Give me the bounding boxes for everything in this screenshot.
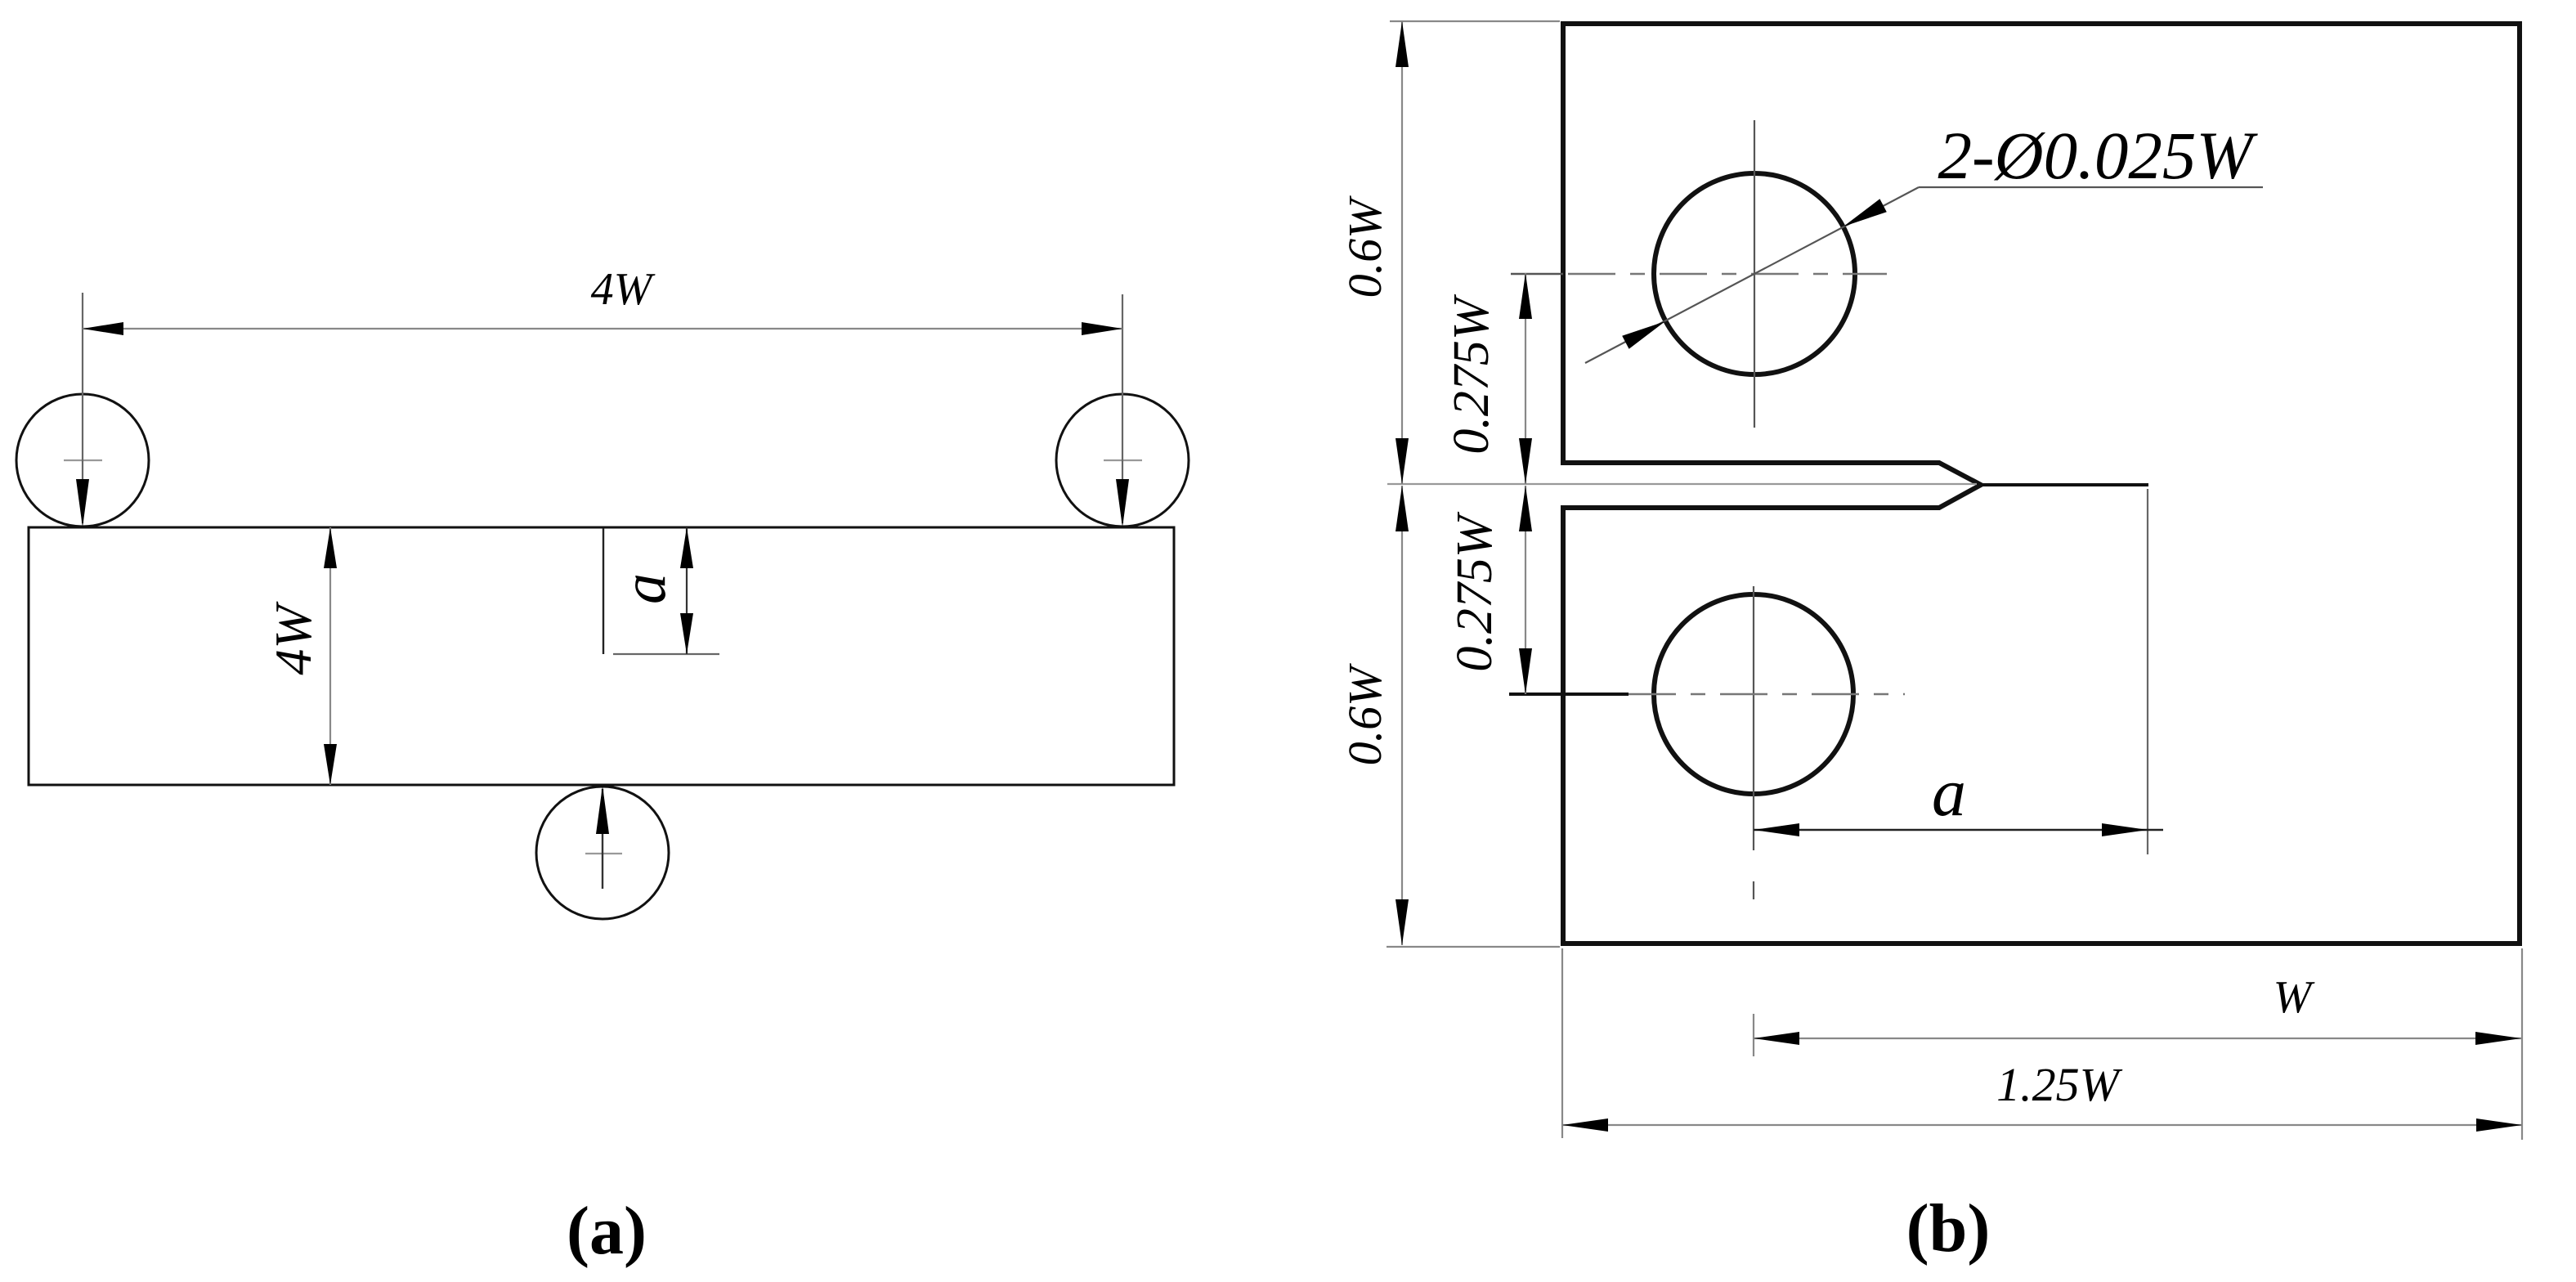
svg-text:W: W <box>2274 972 2315 1023</box>
svg-text:4W: 4W <box>264 601 322 675</box>
upper hole <box>1654 173 1855 374</box>
roller right <box>1056 394 1189 527</box>
svg-text:(a): (a) <box>567 1193 647 1269</box>
roller left <box>16 394 149 527</box>
dimension W <box>1754 972 2521 1056</box>
dimension 1.25W <box>1562 948 2522 1140</box>
dimension 0.6W upper <box>1338 21 1560 484</box>
dimension 0.6W lower <box>1338 486 1560 947</box>
lower hole vertical centre line <box>1753 586 1754 850</box>
svg-text:a: a <box>610 573 679 604</box>
specimen outline with notch <box>1563 24 2520 944</box>
upper hole vertical centre line <box>1754 120 1755 428</box>
dimension 0.275W lower <box>1447 486 1532 694</box>
svg-text:a: a <box>1932 755 1966 831</box>
hole diameter leader 2-Ø0.025W <box>1585 118 2263 363</box>
roller bottom load line <box>596 786 609 889</box>
svg-text:4W: 4W <box>591 264 656 315</box>
svg-text:0.275W: 0.275W <box>1447 511 1503 672</box>
dimension 4W span <box>83 264 1122 335</box>
dimension a (crack depth) <box>610 527 693 654</box>
roller bottom <box>536 787 669 919</box>
svg-text:2-Ø0.025W: 2-Ø0.025W <box>1938 118 2259 193</box>
roller left load line <box>76 293 89 527</box>
dimension 0.275W upper <box>1444 273 1532 484</box>
crack line (a) <box>603 528 604 654</box>
dimension 4W depth <box>264 527 337 785</box>
crack depth extension line <box>613 653 719 655</box>
lower hole horizontal centre line <box>1509 693 1905 696</box>
crack line (b) <box>1981 483 2148 486</box>
svg-text:0.6W: 0.6W <box>1338 663 1391 766</box>
crack tip extension line <box>2147 489 2148 854</box>
lower hole <box>1654 594 1853 794</box>
dimension a (crack length) <box>1754 755 2163 836</box>
notch centre line <box>1387 483 1977 485</box>
svg-text:1.25W: 1.25W <box>1996 1058 2123 1111</box>
svg-text:0.275W: 0.275W <box>1444 294 1499 455</box>
beam outline <box>29 527 1174 785</box>
svg-text:0.6W: 0.6W <box>1338 195 1391 298</box>
upper hole horizontal centre line <box>1511 273 1887 275</box>
svg-text:(b): (b) <box>1906 1190 1991 1266</box>
roller right load line <box>1116 294 1129 527</box>
